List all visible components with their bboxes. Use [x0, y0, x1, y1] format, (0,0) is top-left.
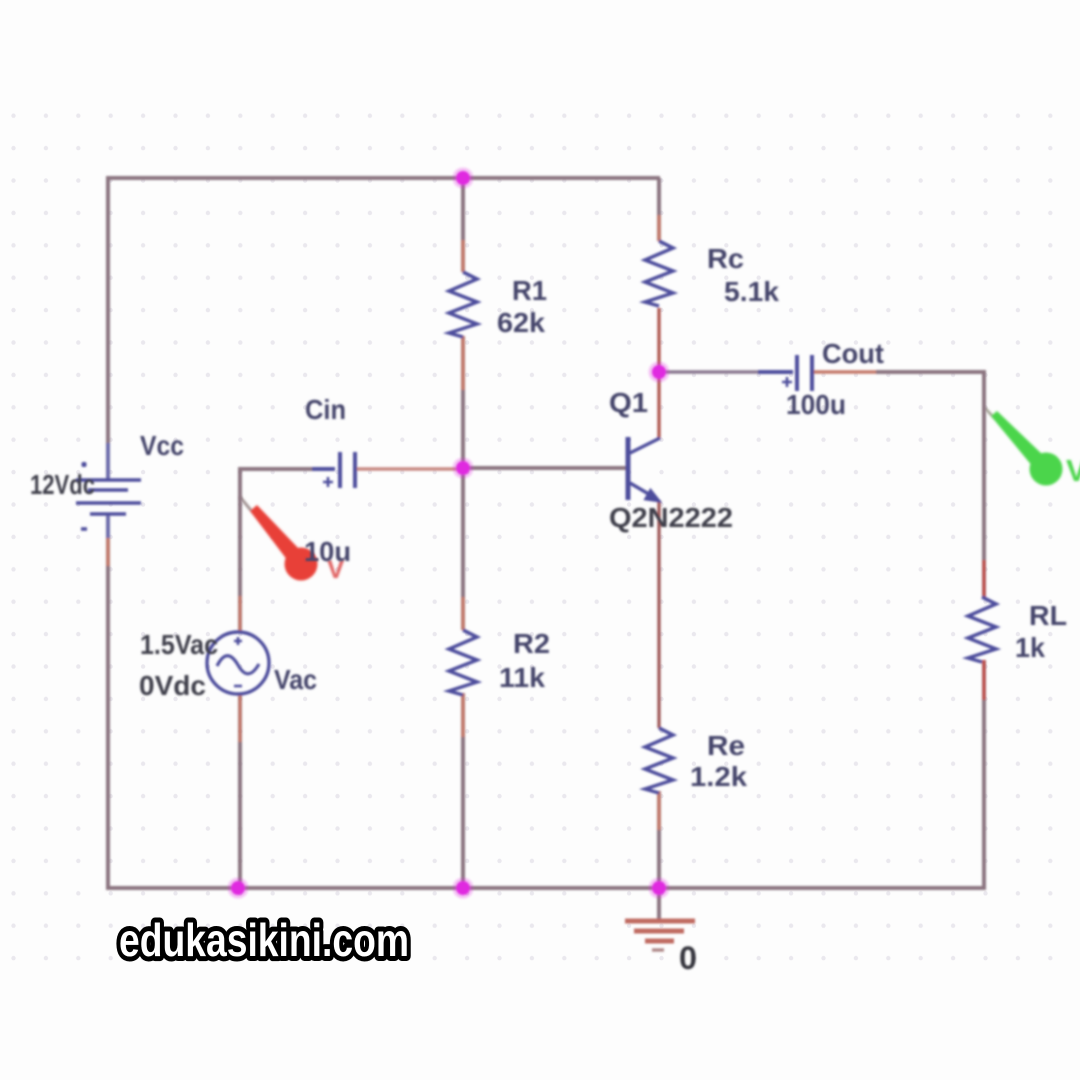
svg-text:1.2k: 1.2k: [690, 761, 747, 792]
resistor Rc: [645, 241, 673, 306]
voltage marker (red) at input: [240, 497, 345, 584]
wire: Cout row left segment: [659, 370, 760, 373]
resistor R1: [449, 272, 477, 337]
resistor Re: [645, 728, 673, 793]
svg-text:R2: R2: [513, 628, 550, 659]
node: Vac / bottom rail junction: [228, 878, 249, 899]
svg-text:R1: R1: [512, 275, 547, 306]
wire: left rail upper (Vcc+ to top rail): [106, 176, 110, 478]
svg-text:62k: 62k: [497, 307, 545, 338]
wire: R2 bottom to bottom rail: [461, 693, 465, 888]
wire: Cout to right rail corner: [876, 370, 984, 374]
wire: Cout right lead: [814, 370, 880, 373]
wire: right rail upper (to RL): [982, 370, 986, 597]
svg-text:12Vdc: 12Vdc: [30, 469, 95, 500]
wire: top rail from Vcc to Rc: [108, 176, 660, 180]
svg-text:1.5Vac: 1.5Vac: [140, 629, 218, 660]
resistor R2: [449, 630, 477, 695]
transistor Q1: [628, 437, 660, 502]
capacitor Cout: [758, 355, 812, 391]
voltage marker (green) at output: [985, 408, 1080, 488]
wire: base wire from node to Q1: [463, 466, 628, 470]
wire: bottom rail: [106, 886, 984, 890]
wire: Cin right lead to node: [356, 467, 463, 470]
svg-text:RL: RL: [1029, 600, 1067, 631]
svg-text:Q2N2222: Q2N2222: [609, 502, 733, 533]
svg-text:V: V: [1066, 453, 1080, 488]
wire: Re bottom to bottom rail: [657, 791, 661, 888]
svg-text:0: 0: [679, 940, 697, 976]
svg-text:5.1k: 5.1k: [724, 276, 779, 307]
svg-text:Cout: Cout: [822, 338, 884, 369]
svg-text:Re: Re: [707, 730, 745, 761]
ground 0: [625, 888, 695, 950]
wire: Cin row left segment: [240, 467, 322, 471]
battery V1 Vcc: [76, 462, 141, 529]
svg-text:Rc: Rc: [707, 243, 744, 274]
source Vac (sine source): [207, 632, 269, 694]
capacitor Cin: [312, 452, 355, 488]
svg-text:11k: 11k: [499, 662, 545, 693]
resistor RL: [968, 597, 996, 662]
svg-text:Vcc: Vcc: [140, 430, 184, 461]
node: ground / bottom rail junction: [649, 878, 670, 899]
wire: R1 bottom to base node: [461, 336, 465, 468]
wire: R1 column top lead: [461, 178, 465, 272]
svg-text:Q1: Q1: [609, 387, 648, 418]
wire: left rail lower (Vcc- to bottom rail): [106, 516, 110, 890]
svg-text:edukasikini.com: edukasikini.com: [119, 914, 409, 966]
wire: Rc bottom to collector node: [657, 308, 660, 438]
node: collector / Cout junction: [649, 362, 670, 383]
svg-text:Vac: Vac: [274, 664, 317, 695]
wire: RL bottom to bottom rail: [982, 660, 986, 890]
wire: emitter column to Re: [657, 500, 660, 728]
wire: Vac column upper: [238, 467, 242, 632]
svg-text:100u: 100u: [786, 389, 846, 420]
wire: Rc top lead from top rail: [657, 178, 661, 241]
node: top rail / R1 junction: [453, 168, 474, 189]
node: R2 / bottom rail junction: [453, 878, 474, 899]
svg-text:Cin: Cin: [305, 394, 346, 425]
svg-text:0Vdc: 0Vdc: [139, 670, 206, 701]
svg-text:10u: 10u: [304, 536, 351, 567]
wire: Vac column lower: [238, 694, 242, 888]
svg-text:1k: 1k: [1015, 632, 1045, 663]
wire: base node to R2 top: [461, 468, 465, 630]
node: base / Cin / R1 / R2 junction: [453, 458, 474, 479]
